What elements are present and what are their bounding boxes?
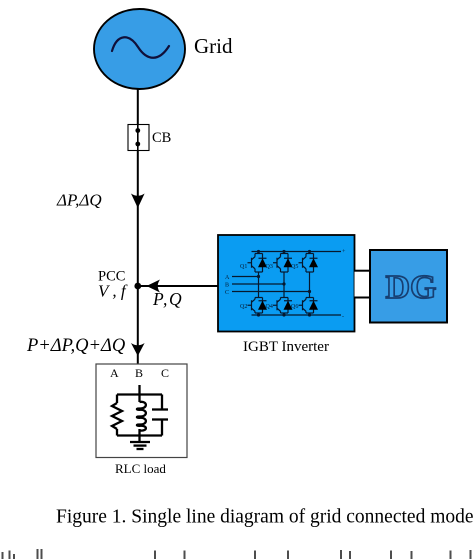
svg-text:P+ΔP,Q+ΔQ: P+ΔP,Q+ΔQ (26, 336, 126, 356)
svg-text:B: B (135, 366, 143, 380)
svg-text:CB: CB (152, 130, 171, 146)
svg-text:B: B (225, 283, 229, 289)
svg-text:Q5: Q5 (291, 264, 298, 270)
svg-text:Q3: Q3 (266, 264, 273, 270)
svg-text:V , f: V , f (98, 282, 128, 301)
svg-text:C: C (161, 366, 169, 380)
svg-text:Q1: Q1 (240, 264, 247, 270)
svg-text:IGBT Inverter: IGBT Inverter (243, 339, 329, 355)
svg-text:DG: DG (386, 269, 437, 306)
svg-text:Figure 1. Single line diagram: Figure 1. Single line diagram of grid co… (56, 507, 474, 528)
svg-text:Grid: Grid (194, 34, 233, 58)
svg-text:RLC load: RLC load (115, 461, 166, 476)
svg-text:-: - (342, 314, 344, 320)
svg-text:C: C (225, 290, 229, 296)
svg-text:ΔP,ΔQ: ΔP,ΔQ (56, 191, 102, 210)
svg-text:Q4: Q4 (266, 304, 273, 310)
svg-text:P,Q: P,Q (152, 289, 183, 309)
svg-text:A: A (225, 275, 230, 281)
svg-text:A: A (110, 366, 119, 380)
svg-text:Q6: Q6 (291, 304, 298, 310)
svg-text:Q2: Q2 (240, 304, 247, 310)
